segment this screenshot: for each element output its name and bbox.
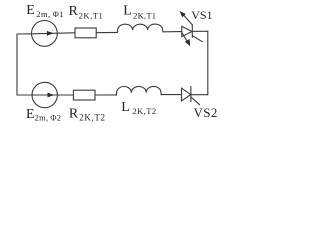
svg-text:R: R <box>69 107 79 122</box>
thyristor VS1 upper arrowhead <box>180 11 186 17</box>
label L2K,T2 <box>121 100 156 116</box>
wire left vertical <box>16 34 18 95</box>
resistor R2K,T2 body <box>73 90 95 100</box>
thyristor VS1 gate lead <box>193 36 203 42</box>
wire from resistor to inductor L2K,T2 <box>95 94 117 96</box>
thyristor VS1 cathode bar <box>191 25 193 38</box>
EMF source E2m,F1 arrowhead <box>47 31 54 36</box>
svg-text:E: E <box>26 107 35 122</box>
label R2K,T1 <box>69 4 104 21</box>
svg-text:L: L <box>121 100 130 115</box>
svg-text:R: R <box>69 4 79 19</box>
inductor L2K,T2 coils <box>116 86 161 95</box>
svg-text:2K,T1: 2K,T1 <box>133 10 156 20</box>
svg-text:2K,T2: 2K,T2 <box>132 106 156 116</box>
thyristor VS1 upper arrow <box>183 14 193 25</box>
label R2K,T2 <box>69 107 106 123</box>
wire from inductor to thyristor VS1 <box>163 31 182 33</box>
wire right vertical rail <box>207 31 209 95</box>
wire from source to resistor R2K,T2 <box>57 94 73 96</box>
thyristor VS2 triangle <box>182 88 191 101</box>
wire from inductor to thyristor VS2 <box>161 94 181 96</box>
svg-text:VS1: VS1 <box>191 8 212 22</box>
svg-text:2m, Φ2: 2m, Φ2 <box>35 112 62 122</box>
thyristor VS1 triangle <box>182 26 192 36</box>
svg-text:VS2: VS2 <box>194 105 218 120</box>
EMF source E2m,F2 arrow shaft <box>32 94 57 96</box>
inductor L2K,T1 coils <box>117 24 162 32</box>
svg-text:2m, Φ1: 2m, Φ1 <box>36 9 64 19</box>
resistor R2K,T1 body <box>75 28 96 38</box>
EMF source E2m,F1 arrow shaft <box>32 32 58 35</box>
wire from VS2 to right rail <box>191 94 208 96</box>
EMF source E2m,F2 circle <box>32 82 57 107</box>
label L2K,T1 <box>123 4 156 21</box>
svg-text:2K,T2: 2K,T2 <box>79 113 105 123</box>
thyristor VS2 gate lead <box>191 97 200 105</box>
svg-text:L: L <box>123 4 132 19</box>
label E2m,F1 <box>26 3 64 19</box>
svg-text:2K,T1: 2K,T1 <box>79 10 104 20</box>
wire top branch left segment <box>17 33 32 35</box>
label E2m,F2 <box>26 107 61 123</box>
wire from VS1 to right rail <box>192 30 208 32</box>
thyristor VS1 lower arrow <box>182 32 188 42</box>
EMF source E2m,F2 arrowhead <box>48 93 55 98</box>
svg-text:E: E <box>26 3 35 18</box>
thyristor VS1 lower arrowhead <box>185 39 190 46</box>
wire bottom branch left segment <box>17 94 32 96</box>
EMF source E2m,F1 circle <box>32 21 58 47</box>
wire from resistor to inductor L2K,T1 <box>96 31 117 33</box>
thyristor VS2 cathode bar <box>190 87 192 102</box>
wire from source to resistor R2K,T1 <box>57 32 75 34</box>
